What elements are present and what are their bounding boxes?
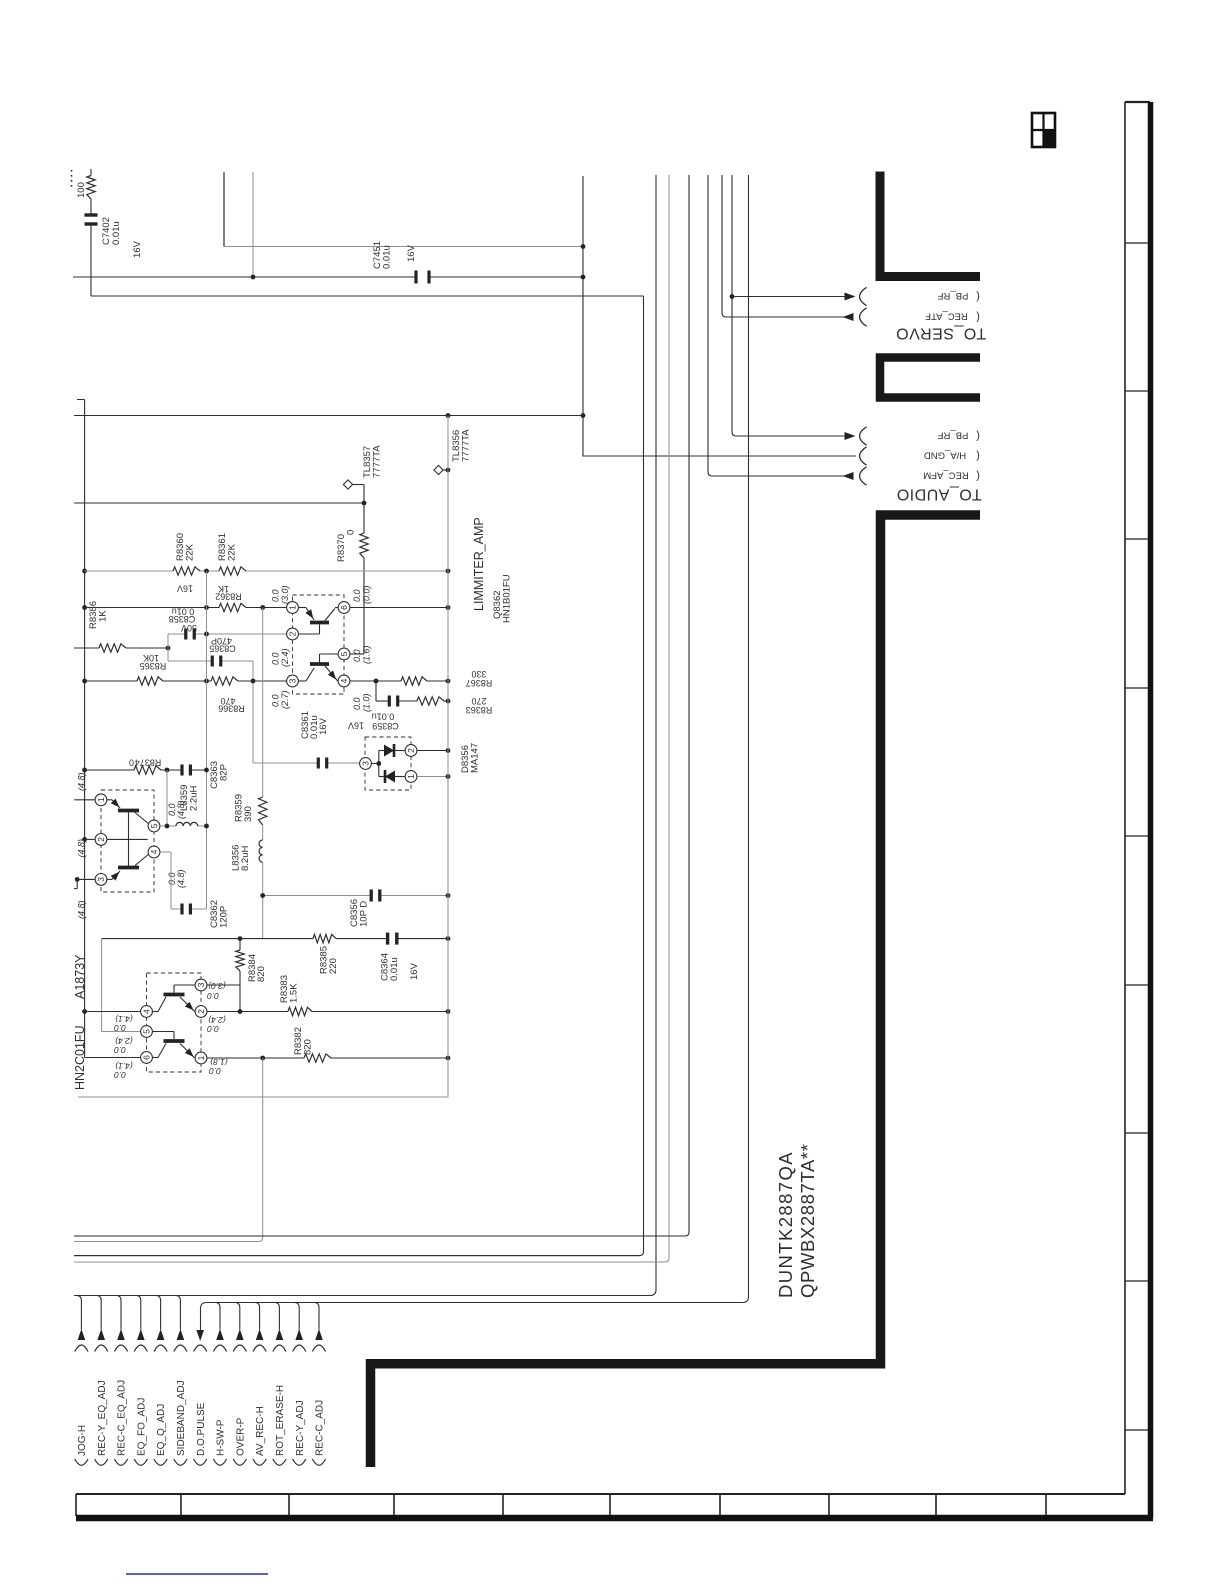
svg-text:EQ_Q_ADJ: EQ_Q_ADJ [156, 1404, 167, 1456]
wire gray y246 [224, 246, 583, 248]
bottom rail y1236 [74, 1235, 685, 1237]
svg-text:0: 0 [346, 530, 357, 535]
bus x656 to feeder1 [74, 175, 656, 1296]
svg-text:0.0: 0.0 [352, 589, 362, 602]
pin 2 D8356 [405, 745, 417, 757]
svg-text:(4.8): (4.8) [77, 900, 87, 919]
feeder taps columns 8-13 [215, 1303, 220, 1330]
svg-text:6: 6 [339, 605, 349, 610]
pin socket arc H-SW-P [213, 1345, 226, 1352]
svg-text:TO_SERVO: TO_SERVO [896, 325, 987, 342]
bus x708 REC_AFM [708, 175, 853, 476]
voltage annotations Q8361 left [77, 772, 87, 791]
pin arrow REC_AFM [843, 472, 854, 480]
label R8360 22K [175, 533, 186, 561]
pin arrow OVER-P [236, 1329, 244, 1340]
svg-text:0.0: 0.0 [352, 649, 362, 662]
pin arrow JOG-H [78, 1329, 86, 1340]
junction dot 240-938 [238, 936, 243, 941]
label C8356 10P D [349, 899, 360, 927]
pin socket arc D.O.PULSE [194, 1345, 207, 1352]
svg-text:82P: 82P [219, 764, 230, 781]
svg-text:(1.6): (1.6) [362, 645, 372, 664]
feeder taps columns 1-6 [76, 1296, 81, 1330]
svg-text:7777TA: 7777TA [372, 445, 383, 478]
label REC-Y_ADJ [295, 1400, 306, 1456]
svg-text:0.01u: 0.01u [372, 711, 395, 721]
voltage annotations Q8362 pins 1-3 [271, 589, 281, 602]
resistor R8374 [134, 766, 161, 774]
label SIDEBAND_ADJ [176, 1380, 187, 1456]
pin arrow PB_RF (audio) [845, 432, 856, 440]
resistor 100 (top left) [90, 169, 92, 176]
pin arrow AV_REC-H [256, 1329, 264, 1340]
svg-text:(2.4): (2.4) [280, 648, 290, 667]
label EQ_Q_ADJ [156, 1404, 167, 1456]
label L8356 8.2uH [231, 845, 242, 871]
wire x263 to bottom rail [74, 1058, 263, 1242]
label C8359 0.01u 16V [372, 711, 395, 721]
wire x253 down to C8361 [252, 661, 254, 763]
svg-text:1: 1 [96, 797, 106, 802]
junction dots on x583 [581, 244, 586, 249]
transistor pack Q8362 dashed box [293, 595, 345, 694]
transistor Q8362b (NPN bottom) [299, 680, 306, 682]
svg-text:R8367: R8367 [466, 678, 493, 688]
label DUNTK2887QA [775, 1151, 796, 1298]
svg-text:REC-Y_EQ_ADJ: REC-Y_EQ_ADJ [97, 1380, 108, 1456]
transistor Q8361a (PNP top) [107, 799, 112, 801]
label C7451 0.01u 16V [372, 241, 383, 269]
pin socket arc SIDEBAND_ADJ [174, 1345, 187, 1352]
wire x101 pin5 feed [101, 939, 103, 1032]
pin arrow REC-C_EQ_ADJ [117, 1329, 125, 1340]
svg-text:R8370: R8370 [336, 534, 347, 562]
pin 5 Q8363 [141, 1026, 153, 1038]
svg-text:22K: 22K [185, 543, 196, 561]
junction dot 206-634 [204, 632, 209, 637]
resistor R8365 [137, 677, 163, 685]
svg-text:REC_AFM: REC_AFM [923, 470, 968, 481]
svg-text:1: 1 [406, 774, 416, 779]
transistor Q8363b (bottom) [153, 1031, 174, 1033]
junction dot 448-681 [446, 679, 451, 684]
pin socket arc H/A_GND [860, 447, 867, 465]
junction dot 206-607 [204, 605, 209, 610]
svg-text:0.01u: 0.01u [389, 957, 400, 981]
pin 2 Q8363 [195, 1006, 207, 1018]
label pin REC_ATF [925, 311, 968, 322]
resistor R8360 [173, 567, 200, 575]
svg-text:DUNTK2887QA: DUNTK2887QA [775, 1151, 796, 1298]
svg-text:0.0: 0.0 [271, 589, 281, 602]
svg-text:390: 390 [243, 806, 254, 822]
diode D8356a [372, 763, 379, 765]
pin socket arc REC-C_EQ_ADJ [114, 1345, 127, 1352]
svg-text:6: 6 [142, 1055, 152, 1060]
pin arrow SIDEBAND_ADJ [177, 1329, 185, 1340]
junction dot 448-701 [446, 699, 451, 704]
svg-text:H-SW-P: H-SW-P [216, 1419, 227, 1456]
wire y895 with capacitor C8356 [263, 895, 372, 897]
pin socket arc PB_RF (audio) [860, 427, 867, 445]
pin 1 Q8362 [287, 602, 299, 614]
svg-text:16V: 16V [348, 720, 364, 730]
label A1873Y [73, 954, 87, 999]
svg-text:1: 1 [196, 1055, 206, 1060]
svg-text:HN1B01FU: HN1B01FU [502, 574, 513, 623]
svg-text:5: 5 [142, 1029, 152, 1034]
svg-text:ROT_ERASE-H: ROT_ERASE-H [275, 1385, 286, 1456]
label Q8362 HN1B01FU [492, 590, 503, 619]
svg-text:2: 2 [406, 748, 416, 753]
resistor R8367 [401, 677, 427, 685]
pin 1 Q8363 [195, 1052, 207, 1064]
label pin PB_RF (servo) [937, 290, 968, 301]
wire y571 supply [85, 570, 173, 572]
resistor R8382 [304, 1054, 331, 1062]
junction dots left bus [82, 569, 87, 574]
pin arrow EQ_FO_ADJ [137, 1329, 145, 1340]
bus x583 vertical [582, 176, 584, 452]
label EQ_FO_ADJ [136, 1398, 147, 1456]
junction dot 448-938 [446, 936, 451, 941]
label R8359 390 [234, 794, 245, 822]
wire pin4 Q8363 [85, 1011, 141, 1013]
blue footer underline [126, 1573, 268, 1575]
svg-text:(4.1): (4.1) [115, 1014, 133, 1024]
wire vertical x168 [167, 634, 169, 661]
svg-text:2.2uH: 2.2uH [189, 786, 200, 811]
svg-text:C8359: C8359 [372, 721, 399, 731]
svg-text:330: 330 [471, 669, 486, 679]
pin socket arc PB_RF (servo) [860, 287, 867, 305]
svg-text:(: ( [976, 430, 980, 442]
junction dot 207-826 [204, 824, 209, 829]
label R8385 220 [319, 946, 330, 974]
svg-text:H/A_GND: H/A_GND [924, 450, 966, 461]
pin socket arc REC-Y_ADJ [293, 1345, 306, 1352]
svg-text:16V: 16V [177, 583, 193, 593]
cut-off label dots [71, 170, 73, 187]
svg-text:50V: 50V [181, 623, 197, 633]
resistor R8385 [313, 934, 336, 942]
wire pin2 D8356 to bus [417, 750, 448, 752]
transistor pack Q8363 dashed box [147, 973, 202, 1072]
label R8367 330 [471, 669, 486, 679]
junction dot 448-571 [446, 569, 451, 574]
wire vertical x206 [206, 571, 208, 909]
svg-text:REC-Y_ADJ: REC-Y_ADJ [295, 1400, 306, 1456]
connector TO_AUDIO outline and board edge thick line [371, 515, 981, 1467]
pin arrow EQ_Q_ADJ [157, 1329, 165, 1340]
pin socket arc JOG-H [75, 1345, 88, 1352]
label JOG-H [77, 1425, 88, 1456]
svg-text:0.0: 0.0 [207, 991, 219, 1001]
test point TL8356 diamond [434, 465, 443, 474]
capacitor C8363 label [209, 761, 220, 789]
junction dot 376-681 [374, 679, 379, 684]
voltage annotations Q8363 left [115, 1014, 133, 1024]
svg-text:JOG-H: JOG-H [77, 1425, 88, 1456]
svg-text:A1873Y: A1873Y [73, 954, 87, 999]
svg-text:QPWBX2887TA**: QPWBX2887TA** [797, 1144, 818, 1299]
svg-text:16V: 16V [406, 244, 417, 262]
bus x732 PB_RF [732, 175, 846, 436]
wire node bus x224 [223, 172, 225, 247]
junction dot 207-770 [204, 768, 209, 773]
svg-text:(: ( [976, 470, 980, 482]
svg-text:REC-C_EQ_ADJ: REC-C_EQ_ADJ [117, 1380, 128, 1456]
junction dot 448-750 [446, 748, 451, 753]
junction dot 263-607 [260, 605, 265, 610]
label 50V [181, 623, 197, 633]
wire pin5 with inductor L8359 [160, 825, 176, 827]
pin 5 Q8362 [338, 648, 350, 660]
junction dot 448-895 [446, 893, 451, 898]
pin 5 Q8361 [148, 820, 160, 832]
svg-text:(0.0): (0.0) [362, 585, 372, 604]
svg-text:0.01u: 0.01u [111, 221, 122, 245]
junction dot 253-681 [251, 679, 256, 684]
svg-text:0.0: 0.0 [114, 1045, 126, 1055]
svg-text:0.0: 0.0 [207, 1024, 219, 1034]
wire pin4 to C8362 [160, 851, 171, 853]
label REC-Y_EQ_ADJ [97, 1380, 108, 1456]
voltage annotations Q8363 right [208, 981, 226, 991]
pin arrow ROT_ERASE-H [276, 1329, 284, 1340]
transistor Q8362a (PNP top) [299, 607, 306, 609]
wire y503 [74, 502, 364, 504]
junction dot 253-277 [251, 275, 256, 280]
wire y938 rail [102, 938, 313, 940]
label pin PB_RF (audio) [937, 430, 968, 441]
svg-text:(4.8): (4.8) [176, 869, 186, 888]
junction dot 206-571 [204, 569, 209, 574]
svg-text:0.0: 0.0 [352, 697, 362, 710]
bottom title-block table [76, 1493, 1125, 1495]
label 100 [76, 182, 87, 198]
wire x167 pin5 tie [166, 770, 168, 826]
label R8366 470 [220, 696, 235, 706]
wire y634 with capacitor C8358 [168, 633, 186, 635]
svg-text:16V: 16V [409, 962, 420, 980]
svg-text:TO_AUDIO: TO_AUDIO [896, 486, 982, 503]
pin arrow REC-Y_ADJ [295, 1329, 303, 1340]
junction dots y415 [446, 413, 451, 418]
svg-text:PB_RF: PB_RF [937, 290, 968, 301]
pin 3 Q8361 [95, 874, 107, 886]
pin arrow REC_ATF [843, 313, 854, 321]
diode D8356b [379, 776, 384, 778]
svg-text:(2.4): (2.4) [115, 1036, 133, 1046]
svg-text:SIDEBAND_ADJ: SIDEBAND_ADJ [176, 1380, 187, 1456]
wire node bus x253 [252, 172, 254, 277]
bus x722 REC_ATF [722, 175, 853, 317]
transistor Q8363a (top) [153, 1011, 158, 1013]
wire y681 pin3 [85, 680, 137, 682]
svg-text:(3.0): (3.0) [280, 585, 290, 604]
svg-text:2: 2 [288, 631, 298, 636]
label D.O.PULSE [196, 1402, 207, 1456]
connector separator bracket [880, 358, 980, 398]
svg-text:(4.8): (4.8) [77, 772, 87, 791]
pin 4 Q8363 [141, 1006, 153, 1018]
label R8374 0 [129, 757, 134, 767]
label TO_AUDIO [896, 486, 982, 503]
resistor R8383 [288, 1007, 312, 1015]
junction dot 240-1011 [238, 1009, 243, 1014]
pin arrow REC-Y_EQ_ADJ [97, 1329, 105, 1340]
page navigation checker icon [1032, 113, 1055, 147]
pin 6 Q8362 [338, 602, 350, 614]
bus x669 to bottom rail [74, 175, 669, 1262]
transistor Q8361b (PNP bottom) [107, 878, 112, 880]
svg-text:220: 220 [328, 958, 339, 974]
svg-text:4: 4 [142, 1009, 152, 1014]
label QPWBX2887TA** [797, 1144, 818, 1299]
svg-text:(: ( [976, 450, 980, 462]
pin socket arc ROT_ERASE-H [273, 1345, 286, 1352]
pin socket arc AV_REC-H [253, 1345, 266, 1352]
voltage annotations Q8362 pins 4-6 [352, 589, 362, 602]
pin 2 Q8361 [95, 834, 107, 846]
svg-text:4: 4 [339, 678, 349, 683]
svg-text:(: ( [976, 291, 980, 303]
transistor pack Q8361 dashed box [101, 790, 154, 892]
junction dot 168-648 [166, 646, 171, 651]
wire y296 from C7402 [91, 295, 644, 297]
pin socket arc REC-Y_EQ_ADJ [95, 1345, 108, 1352]
label REC-C_EQ_ADJ [117, 1380, 128, 1456]
wire pin1 Q8363 [207, 1057, 304, 1059]
resistor R8362 [219, 603, 246, 611]
wire pin2 Q8361 from bus [85, 838, 95, 840]
bottom rail y1255 [74, 1255, 640, 1257]
svg-text:C8358: C8358 [169, 614, 196, 624]
wire y661 with capacitor C8365 [168, 660, 212, 662]
label TO_SERVO [896, 325, 987, 342]
resistor R8386 [74, 647, 99, 649]
svg-text:EQ_FO_ADJ: EQ_FO_ADJ [136, 1398, 147, 1456]
left bus x84.6 [77, 399, 85, 401]
svg-text:1K: 1K [98, 610, 109, 622]
svg-text:(: ( [976, 311, 980, 323]
svg-text:1.5K: 1.5K [289, 983, 300, 1003]
wire y277 with capacitor C7451 [73, 276, 415, 278]
wire pin2 Q8363 [207, 1011, 288, 1013]
svg-text:R8366: R8366 [218, 703, 245, 713]
junction dot 167-826 [165, 824, 170, 829]
pin 4 Q8362 [338, 675, 350, 687]
svg-text:REC-C_ADJ: REC-C_ADJ [315, 1400, 326, 1456]
pin socket arc REC_ATF [860, 308, 867, 326]
wire pin6 y607 [350, 607, 448, 609]
svg-text:2: 2 [196, 1009, 206, 1014]
pin 3 Q8363 [195, 979, 207, 991]
pin 6 Q8363 [141, 1052, 153, 1064]
inductor L8359 [176, 822, 198, 826]
label C7402 0.01u 16V [101, 217, 112, 245]
label OVER-P [235, 1417, 246, 1456]
label AV_REC-H [255, 1406, 266, 1456]
label REC-C_ADJ [315, 1400, 326, 1456]
svg-text:R8365: R8365 [140, 661, 167, 671]
label pin H/A_GND [924, 450, 966, 461]
junction dot 167-770 [165, 768, 170, 773]
svg-text:120P: 120P [219, 906, 230, 928]
svg-text:270: 270 [471, 696, 486, 706]
pin 1 Q8361 [95, 794, 107, 806]
wire PB_RF to TO_SERVO [732, 296, 846, 298]
resistor R8370 [360, 533, 368, 558]
svg-text:0.0: 0.0 [114, 1023, 126, 1033]
resistor R8384 vertical [239, 939, 241, 950]
junction dot 448-776 [446, 774, 451, 779]
label C8365 470P [211, 636, 232, 646]
wire y701 with capacitor C8359 [375, 681, 377, 701]
svg-text:3: 3 [96, 877, 106, 882]
wire y415 TL8356 rail [74, 415, 583, 417]
junction dot 448-1058 [446, 1056, 451, 1061]
svg-text:PB_RF: PB_RF [937, 430, 968, 441]
label R8362 1K [218, 584, 229, 594]
svg-text:0.0: 0.0 [271, 652, 281, 665]
bus x689 to bottom rail [74, 175, 689, 1236]
connector TO_SERVO outline bracket [880, 172, 980, 277]
wire pin1 D8356 to bus [417, 776, 448, 778]
svg-text:(1.0): (1.0) [362, 693, 372, 712]
svg-text:100: 100 [76, 182, 87, 198]
junction dot 263-895 [260, 893, 265, 898]
wire R8363 to bus [444, 700, 448, 702]
pin 1 D8356 [405, 771, 417, 783]
label C8364 0.01u 16V [380, 953, 391, 981]
pin socket arc REC_AFM [860, 467, 867, 485]
svg-text:(4.8): (4.8) [77, 839, 87, 858]
wire pin1 Q8361 [74, 799, 95, 801]
svg-text:2: 2 [96, 837, 106, 842]
svg-text:16V: 16V [132, 240, 143, 258]
svg-text:0.01u: 0.01u [382, 245, 393, 269]
junction dot PB_RF [730, 294, 735, 299]
wire pin3 hook [75, 877, 80, 882]
test point TL8357 diamond [343, 480, 352, 489]
pin 2 Q8362 [287, 628, 299, 640]
label R8365 10K [143, 653, 159, 663]
pin 4 Q8361 [148, 846, 160, 858]
svg-text:R8362: R8362 [215, 591, 242, 601]
svg-text:(3.0): (3.0) [208, 981, 226, 991]
wire R8370 to pin5 [363, 558, 365, 654]
label C8361 0.01u 16V [300, 711, 311, 739]
bus x748 to feeder2 [201, 175, 749, 1331]
pin socket arc EQ_FO_ADJ [134, 1345, 147, 1352]
junction dot 364-503 [362, 501, 367, 506]
label D8356 MA147 [460, 745, 471, 773]
label pin REC_AFM [923, 470, 968, 481]
junction dot 448-1011 [446, 1009, 451, 1014]
label R8361 22K [217, 533, 228, 561]
svg-text:AV_REC-H: AV_REC-H [255, 1406, 266, 1456]
pin arrow REC-C_ADJ [315, 1329, 323, 1340]
svg-text:MA147: MA147 [470, 743, 481, 773]
capacitor C8364 [386, 933, 389, 945]
svg-text:0.0: 0.0 [114, 1070, 126, 1080]
label R8386 1K [88, 601, 99, 629]
pin arrow H-SW-P [216, 1329, 224, 1340]
resistor R8366 [211, 677, 238, 685]
